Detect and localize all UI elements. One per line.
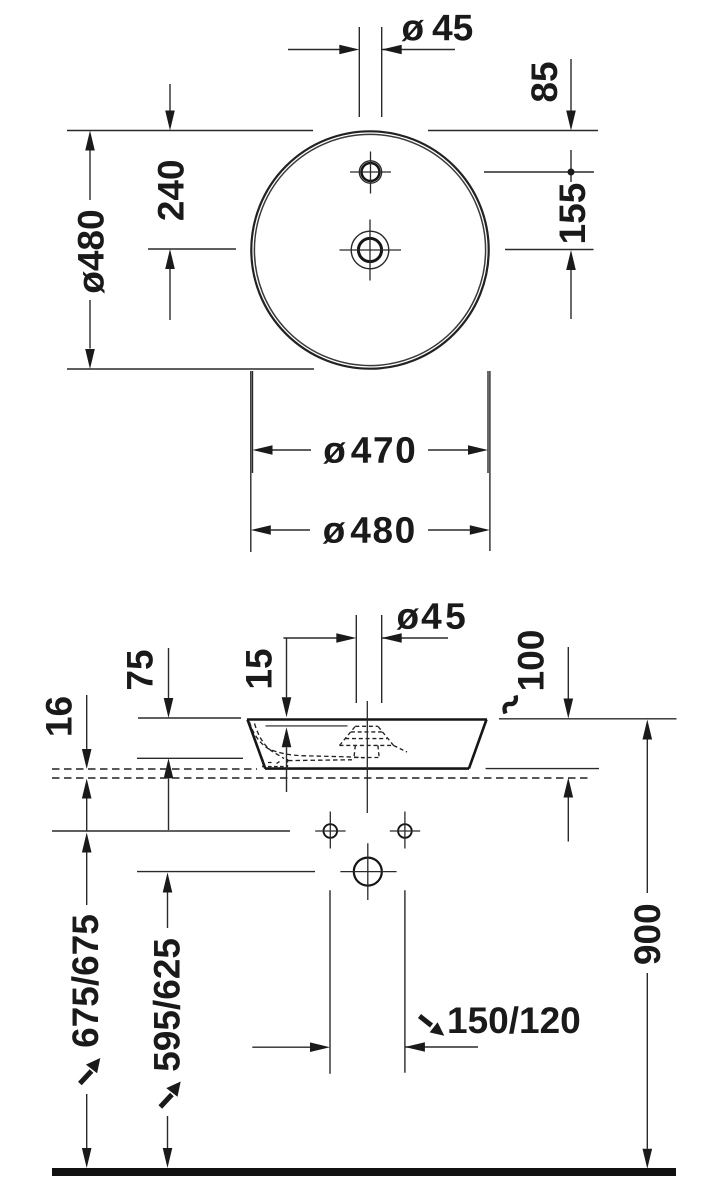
faucet hole inner circle ø45 (362, 163, 380, 181)
slant arrow 150/120 (420, 1016, 432, 1026)
drain level line (137, 871, 315, 873)
label 240 (158, 161, 184, 220)
label ø 45 (plan) (402, 15, 473, 41)
label 675/675 (71, 915, 99, 1046)
dim ø45 side right extension line (381, 615, 383, 703)
slant arrow 675 (80, 1071, 92, 1084)
dim 15 down arrow (286, 638, 288, 697)
dim ø480 vertical line top arrow (85, 131, 95, 151)
dim 900 line (643, 720, 653, 740)
label 75 (127, 650, 153, 689)
inner rim line (266, 725, 348, 727)
faucet level extension line right (484, 171, 594, 173)
drain level extension line right (505, 249, 594, 251)
faucet hole crosshair horizontal (350, 171, 391, 173)
label ø480 (78, 211, 105, 294)
dim ø480 vertical line bottom arrow (89, 300, 91, 349)
label ø 470 (323, 437, 414, 464)
faucet hole outer circle (359, 161, 381, 183)
label ~100 (518, 631, 544, 689)
dim ~100 down arrow (567, 647, 569, 699)
dim 675/675 line (82, 833, 92, 853)
dim 150/120 extension line right (404, 890, 406, 1073)
dim 75 up arrow (168, 778, 170, 830)
inner bottom extension line left (137, 757, 243, 759)
dim 595/625 lower segment (167, 1116, 169, 1148)
countertop dashed line lower (52, 777, 590, 779)
ø470 extension line right (487, 371, 489, 473)
dim 150/120 right arrow (405, 1046, 478, 1048)
dim ø45 side right arrow and leader (382, 637, 448, 639)
mounting hole level line (52, 830, 290, 832)
label 900 (634, 905, 660, 964)
basin top extension line right (499, 718, 677, 720)
ø480 extension line right (489, 371, 491, 551)
label 85 (531, 62, 557, 101)
bottom tangent extension line (67, 368, 314, 370)
drain hole inner circle (358, 238, 381, 261)
basin bottom edge (265, 767, 469, 770)
dim 240 bottom arrow (169, 269, 171, 320)
drain funnel below base (354, 745, 407, 757)
basin top extension line left (138, 717, 241, 719)
ø470 extension line left (252, 371, 254, 473)
mounting hole left (324, 824, 338, 838)
dim 595/625 line (163, 873, 173, 893)
dim ø45 side left arrow (283, 637, 337, 639)
counter top solid line right (486, 768, 599, 770)
dim 240 top arrow (169, 84, 171, 111)
drain outlet circle (354, 858, 382, 886)
interior dashed bowl curve outer (250, 722, 365, 758)
dim 150/120 left arrow (252, 1046, 310, 1048)
interior dashed bottom line (288, 759, 352, 762)
label 155 (560, 184, 586, 242)
drain crosshair vertical (369, 220, 371, 281)
dim ø45 left extension line (358, 27, 360, 117)
basin top edge (247, 718, 487, 721)
basin right slant edge (469, 720, 487, 769)
dim 150/120 extension line left (329, 890, 331, 1073)
label ø 45 (side) (397, 603, 465, 629)
faucet hole crosshair vertical (370, 152, 372, 194)
dim ø45 right arrow and leader (382, 49, 455, 51)
drain level extension line left (148, 248, 236, 250)
drain hole outer circle (351, 231, 389, 269)
dim ø45 right extension line (381, 27, 383, 117)
label 15 (246, 649, 272, 687)
side view centerline (366, 701, 368, 813)
top tangent extension line (67, 130, 598, 132)
dim ø470 line (273, 449, 312, 451)
dim 75 down arrow (168, 648, 170, 698)
dim 16 up arrow (86, 799, 88, 831)
dim ~100 up arrow (567, 798, 569, 842)
dim 675/675 lower segment (86, 1094, 88, 1148)
dim 155 upper segment and dot (570, 150, 572, 182)
drain funnel dashed (hat) (340, 726, 394, 745)
basin inner rim circle ø470 (254, 134, 485, 365)
floor bar (52, 1168, 676, 1176)
dim ø45 side left extension line (355, 615, 357, 703)
dim ø480 line (271, 529, 310, 531)
dim 16 down arrow (86, 695, 88, 749)
dim ø45 left arrow (288, 49, 340, 51)
interior dashed bowl curve inner (255, 724, 285, 759)
label 16 (46, 697, 72, 734)
countertop dashed line upper (52, 768, 257, 770)
basin left slant edge (248, 720, 266, 769)
label 595/625 (153, 939, 181, 1071)
dim 155 lower arrow (570, 270, 572, 319)
dim 15 up arrow (286, 747, 288, 792)
label 150/120 (449, 1006, 579, 1034)
drain crosshair horizontal (340, 249, 402, 251)
label ø 480 (323, 517, 414, 544)
ø480 extension line left (250, 371, 252, 552)
basin outer circle ø480 (251, 131, 488, 368)
dim 900 lower segment (646, 973, 648, 1149)
interior dashed bottom pocket (262, 759, 288, 767)
mounting hole right (398, 824, 412, 838)
dim 85 line (570, 59, 572, 111)
slant arrow 595 (160, 1095, 172, 1108)
